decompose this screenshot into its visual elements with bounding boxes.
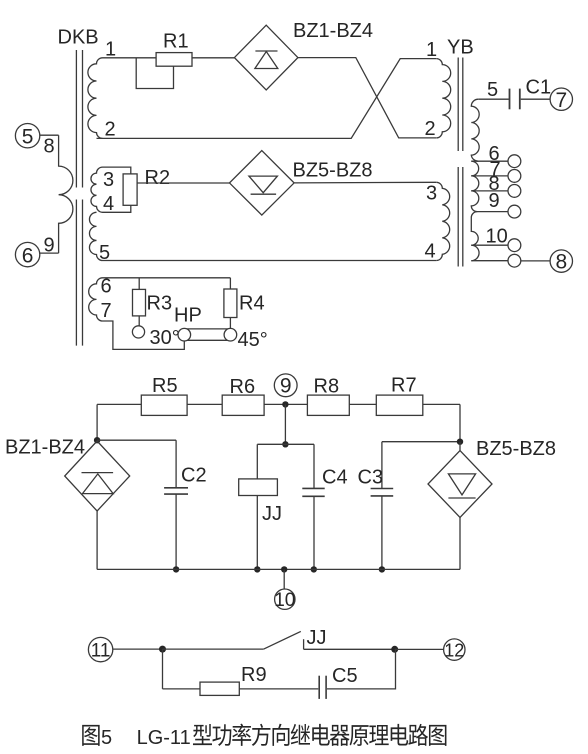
tap wire 7: [471, 175, 508, 177]
wire to R4: [229, 278, 231, 289]
svg-text:3: 3: [103, 169, 114, 191]
wire to terminal 12: [395, 648, 444, 650]
relay coil JJ wire top: [256, 444, 258, 479]
left rail drop: [96, 404, 98, 440]
DKB winding 4-5 segment: [89, 212, 102, 260]
bottom rail: [97, 568, 460, 570]
wire right diamond to bottom rail: [459, 517, 461, 569]
rectifier bridge BZ5-BZ8 (lower): [428, 442, 492, 518]
svg-text:1: 1: [426, 39, 437, 61]
junction dot C2 bottom: [173, 566, 179, 572]
resistor R2: [123, 174, 137, 205]
terminal circle 12: [444, 639, 465, 660]
svg-text:BZ1-BZ4: BZ1-BZ4: [5, 437, 85, 459]
resistor R8: [307, 395, 349, 415]
svg-text:5: 5: [22, 126, 34, 149]
YB secondary segment 6-7: [471, 161, 478, 176]
R1 tap link: [136, 58, 173, 89]
DKB winding 3-4-5: [91, 167, 103, 212]
capacitor C2: [175, 440, 177, 488]
svg-text:C2: C2: [181, 465, 207, 487]
YB winding 3-4: [436, 182, 449, 260]
end circle: [508, 254, 521, 267]
svg-text:9: 9: [489, 190, 500, 212]
wire to R9: [163, 688, 201, 690]
YB secondary segment 8-9: [471, 191, 479, 212]
capacitor C5: [318, 676, 320, 699]
phase shifter HP link: [184, 328, 230, 330]
junction dot C4 bottom: [311, 566, 317, 572]
svg-text:45°: 45°: [238, 329, 268, 351]
relay coil JJ: [239, 479, 278, 496]
wire terminal3 to R2: [103, 167, 131, 174]
terminal circle 7: [550, 88, 572, 110]
svg-text:5: 5: [487, 79, 498, 101]
junction dot right (contact): [391, 646, 398, 653]
resistor R4: [224, 289, 237, 318]
wire terminal7 path: [103, 321, 185, 349]
node circle 10: [275, 589, 295, 609]
terminal circle 8: [550, 250, 572, 272]
tap wire 8: [471, 190, 508, 192]
center drop from node 9: [284, 404, 286, 444]
winding end wire: [471, 260, 508, 262]
rectifier bridge BZ1-BZ4: [234, 25, 298, 90]
wire 8: [40, 134, 59, 136]
figure caption: [82, 725, 99, 746]
svg-text:R3: R3: [147, 293, 173, 315]
svg-text:YB: YB: [447, 37, 474, 59]
svg-text:12: 12: [444, 640, 464, 660]
wire to switch: [163, 648, 264, 650]
wire BZ1-BZ4 to YB terminal 2 (crossing): [298, 58, 436, 138]
svg-text:6: 6: [22, 245, 34, 268]
junction dot left top: [94, 437, 100, 443]
svg-text:7: 7: [101, 300, 112, 322]
junction dot left (contact): [159, 646, 166, 653]
junction dot C3 bottom: [379, 566, 385, 572]
resistor R1: [156, 53, 192, 67]
svg-text:11: 11: [91, 641, 111, 662]
wire to C2 top: [97, 439, 176, 441]
capacitor C3: [381, 442, 383, 489]
tap wire 6: [471, 160, 508, 162]
wire R1 to BZ1-BZ4: [192, 57, 234, 59]
DKB left winding (8-9): [59, 135, 73, 253]
svg-text:10: 10: [486, 226, 508, 248]
junction dot node 9: [282, 401, 288, 407]
switch fixed contact: [303, 639, 305, 649]
svg-text:C5: C5: [332, 665, 358, 687]
R3 lower wire: [138, 316, 140, 326]
svg-text:9: 9: [280, 375, 292, 398]
R4 lower wire: [229, 318, 231, 329]
svg-text:2: 2: [425, 118, 436, 140]
svg-text:8: 8: [555, 251, 567, 274]
terminal circle 11: [88, 637, 112, 661]
svg-text:BZ5-BZ8: BZ5-BZ8: [476, 438, 556, 460]
svg-text:R4: R4: [239, 293, 265, 315]
capacitor C4: [313, 444, 315, 488]
svg-text:30°: 30°: [150, 327, 180, 349]
tap wire 9: [477, 211, 508, 213]
svg-text:DKB: DKB: [58, 27, 99, 49]
wire R2 tap to BZ5-BZ8: [137, 182, 229, 184]
resistor R5: [141, 395, 187, 415]
svg-text:R8: R8: [314, 376, 340, 398]
switch JJ blade: [264, 631, 301, 649]
wire DKB-5 to YB terminal 4: [103, 260, 437, 262]
node 10 stub: [283, 569, 285, 589]
svg-text:C4: C4: [322, 467, 348, 489]
svg-text:JJ: JJ: [307, 627, 327, 649]
wire DKB-2 to YB terminal 1 (crossing): [97, 59, 437, 139]
YB secondary segment 9-10: [471, 212, 478, 246]
resistor R9: [200, 682, 239, 695]
wire terminal4 to R2: [103, 205, 131, 212]
svg-text:10: 10: [274, 590, 295, 611]
svg-text:3: 3: [426, 183, 437, 205]
branch left drop: [162, 649, 164, 689]
resistor R7: [376, 395, 423, 415]
resistor R6: [222, 395, 264, 415]
svg-text:8: 8: [44, 136, 55, 158]
rectifier bridge BZ1-BZ4 (lower): [65, 441, 130, 511]
svg-text:HP: HP: [174, 305, 202, 327]
wire diamond to bottom rail: [96, 511, 98, 569]
svg-text:5: 5: [101, 727, 112, 749]
terminal circle 5: [15, 124, 39, 148]
wire C5 up to junction: [327, 649, 396, 689]
tap circle 9: [508, 205, 521, 218]
svg-text:BZ5-BZ8: BZ5-BZ8: [293, 160, 373, 182]
node circle 9: [274, 374, 297, 397]
svg-text:4: 4: [425, 241, 436, 263]
wire switch to right junction: [304, 648, 395, 650]
tap circle 7: [508, 170, 521, 183]
YB secondary segment 10-end: [471, 245, 479, 261]
svg-text:2: 2: [105, 119, 116, 141]
YB secondary winding 5-6: [471, 99, 479, 161]
DKB winding 1-2: [88, 58, 103, 139]
svg-text:9: 9: [44, 235, 55, 257]
wire terminal6 top: [103, 277, 231, 279]
svg-text:R5: R5: [152, 375, 178, 397]
svg-text:7: 7: [555, 89, 567, 112]
resistor R3: [133, 289, 146, 316]
YB winding 1-2: [436, 59, 450, 138]
contact circle 30deg: [132, 326, 144, 338]
svg-text:R6: R6: [230, 376, 256, 398]
terminal circle 6: [15, 242, 39, 266]
svg-text:R1: R1: [163, 31, 189, 53]
wire R9 to C5: [239, 688, 318, 690]
wire 9: [40, 252, 59, 254]
wire C3 top to right node: [382, 441, 460, 443]
tap circle 6: [508, 155, 521, 168]
rectifier bridge BZ5-BZ8: [230, 151, 295, 216]
junction dot JJ bottom: [254, 566, 260, 572]
wire terminal1 to R1: [103, 57, 157, 59]
relay coil JJ wire bottom: [256, 496, 258, 570]
svg-text:LG-11: LG-11: [137, 727, 191, 749]
tap wire 5: [478, 98, 509, 100]
junction dot node 10: [281, 566, 287, 572]
svg-text:C1: C1: [526, 77, 552, 99]
tap wire 10: [471, 244, 508, 246]
YB secondary segment 7-8: [471, 176, 479, 191]
svg-text:R2: R2: [145, 167, 171, 189]
wire BZ5-BZ8 to YB terminal 3: [294, 181, 436, 184]
svg-text:6: 6: [101, 276, 112, 298]
resistor R3 wire: [138, 278, 140, 290]
svg-text:C3: C3: [358, 467, 384, 489]
wire 11 to junction: [113, 648, 163, 650]
right rail drop: [459, 404, 461, 441]
top rail segments: [97, 403, 141, 405]
junction dot right top: [457, 439, 463, 445]
tap circle 8: [508, 185, 521, 198]
wire to terminal 8: [521, 260, 550, 262]
YB core: [457, 58, 459, 152]
svg-text:JJ: JJ: [262, 503, 282, 525]
svg-text:R9: R9: [241, 664, 267, 686]
center branch horizontal: [257, 443, 314, 445]
svg-text:R7: R7: [391, 375, 417, 397]
DKB core: [75, 50, 77, 188]
junction dot center: [282, 441, 288, 447]
svg-text:BZ1-BZ4: BZ1-BZ4: [293, 20, 373, 42]
DKB winding 6-7: [89, 278, 103, 321]
capacitor C1: [509, 89, 511, 110]
tap circle 10: [508, 239, 521, 252]
